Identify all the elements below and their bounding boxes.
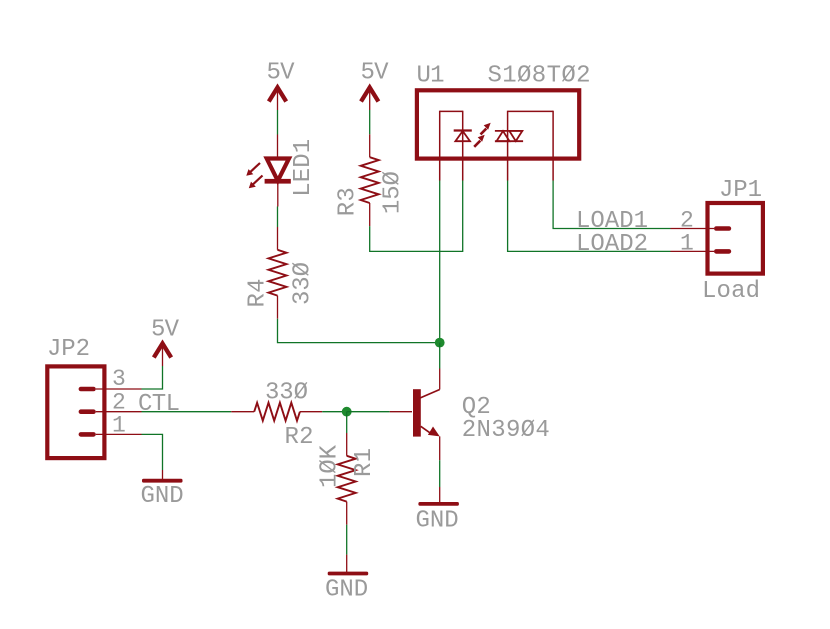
svg-text:33Ø: 33Ø — [265, 380, 308, 407]
wire R1 to GND — [346, 525, 348, 555]
ground symbol (R1) — [325, 555, 368, 604]
svg-text:3: 3 — [112, 366, 126, 392]
supply 5V symbol (JP2 branch) — [151, 317, 180, 367]
Q2 emitter — [421, 426, 431, 433]
transistor Q2 — [413, 343, 440, 461]
JP2 pin 1 pad — [79, 432, 96, 437]
Q2 base bar — [413, 389, 421, 436]
svg-text:JP2: JP2 — [47, 336, 90, 363]
svg-text:R1: R1 — [351, 448, 378, 477]
JP1 pin 1 stub — [671, 250, 715, 252]
connector JP2 — [47, 366, 141, 458]
wire R4 to collector node — [278, 319, 440, 343]
U1 internal LED symbol — [454, 131, 472, 142]
U1 internal LED pin 2 line — [462, 111, 464, 181]
wire 5V to LED1 anode — [277, 110, 279, 135]
svg-text:U1: U1 — [417, 63, 445, 90]
Q2 base pin stub — [390, 411, 412, 413]
U1 internal triac pin line — [507, 111, 509, 181]
svg-text:GND: GND — [325, 577, 368, 604]
Q2 emitter pin — [439, 436, 441, 460]
U1 optical arrow 2 — [481, 123, 491, 135]
svg-text:15Ø: 15Ø — [380, 171, 407, 214]
resistor R2 — [231, 403, 322, 421]
svg-text:1: 1 — [112, 413, 126, 439]
net CTL wire — [142, 411, 232, 413]
wire JP2 pin1 to GND — [142, 434, 163, 470]
svg-text:5V: 5V — [151, 317, 180, 344]
svg-text:R4: R4 — [245, 279, 272, 308]
connector JP1 — [671, 203, 763, 274]
JP2 pin 2 pad — [79, 409, 96, 414]
svg-text:1: 1 — [680, 231, 694, 257]
svg-text:GND: GND — [416, 508, 459, 535]
wire U1 triac MT2 to LOAD1 — [553, 181, 670, 229]
ground symbol (JP2) — [141, 470, 184, 510]
JP2 pin 3 stub — [96, 388, 142, 390]
svg-text:JP1: JP1 — [719, 177, 762, 204]
LED1 emission arrow 1 — [246, 163, 260, 176]
svg-text:R3: R3 — [335, 187, 362, 216]
wire R3 to U1 LED anode — [370, 181, 463, 252]
resistor R4 — [269, 227, 287, 319]
wire R2 to base node — [322, 411, 347, 413]
ground symbol (Q2) — [416, 487, 459, 535]
U1 triac symbol — [495, 131, 523, 141]
wire base node to R1 — [346, 412, 348, 433]
svg-text:33Ø: 33Ø — [290, 262, 317, 305]
wire 5V to R3 — [369, 110, 371, 134]
wire Q2 emitter to GND — [439, 460, 441, 487]
wire JP2 pin3 to 5V — [142, 366, 163, 389]
JP2 pin 2 stub — [96, 411, 142, 413]
wire base node to Q2 base — [347, 411, 390, 413]
U1 internal LED pin 1 line — [439, 111, 441, 181]
svg-text:S1Ø8TØ2: S1Ø8TØ2 — [488, 63, 591, 90]
svg-text:LOAD2: LOAD2 — [576, 231, 648, 258]
svg-text:5V: 5V — [361, 60, 390, 87]
LED1 emission arrow 2 — [249, 176, 263, 189]
U1 internal LED top connector — [440, 110, 463, 112]
LED LED1 — [246, 135, 291, 207]
wire U1 triac MT1 to LOAD2 — [508, 181, 671, 252]
JP1 pin 1 pad — [714, 249, 731, 254]
Q2 collector pin — [439, 369, 441, 390]
JP2 pin 1 stub — [96, 433, 142, 435]
svg-text:CTL: CTL — [138, 391, 180, 418]
Q2 collector wire from node — [439, 343, 441, 369]
resistor R3 — [361, 134, 379, 226]
svg-text:GND: GND — [141, 483, 184, 510]
junction node (collector) — [435, 338, 445, 348]
supply 5V symbol (R3 branch) — [361, 60, 390, 111]
svg-text:2N39Ø4: 2N39Ø4 — [462, 417, 550, 444]
JP2 pin 3 pad — [79, 387, 96, 392]
supply 5V symbol (LED1 branch) — [267, 60, 296, 111]
resistor R1 — [338, 433, 356, 525]
JP1 pin 2 stub — [671, 228, 715, 230]
junction node (base) — [342, 407, 352, 417]
svg-text:5V: 5V — [267, 60, 296, 87]
IC U1 box — [417, 90, 579, 158]
svg-text:R2: R2 — [285, 424, 314, 451]
U1 internal triac second pin line — [552, 111, 554, 181]
wire LED1 cathode to R4 — [277, 207, 279, 228]
svg-text:1ØK: 1ØK — [317, 444, 344, 488]
svg-text:LED1: LED1 — [290, 139, 317, 197]
JP1 pin 2 pad — [714, 226, 731, 231]
wire U1 pin1 to collector node — [439, 181, 441, 343]
U1 internal triac top connector — [508, 110, 553, 112]
svg-text:Load: Load — [702, 278, 760, 305]
U1 optical arrow 1 — [474, 135, 485, 147]
